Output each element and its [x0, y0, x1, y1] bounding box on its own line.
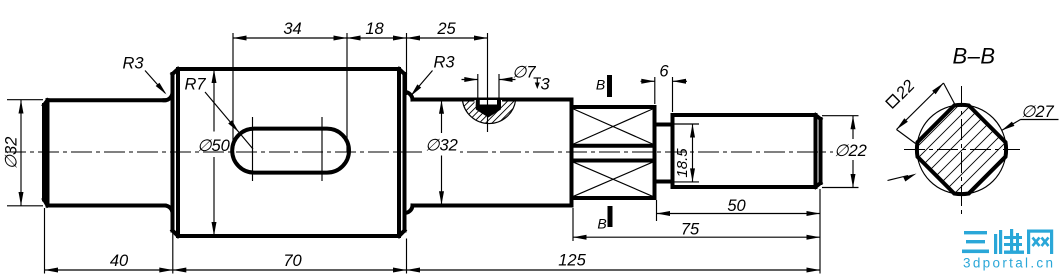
label R3 left with leader: [122, 55, 168, 97]
svg-text:B: B: [597, 216, 606, 232]
keyway arc-centre tick right: [321, 117, 323, 181]
dimension 50: [657, 197, 821, 221]
hole centreline: [487, 33, 489, 132]
svg-text:18.5: 18.5: [674, 148, 691, 178]
fillet R3 bottom-left of shoulder: [165, 206, 173, 214]
dimension Ø7 of hole: [462, 64, 537, 99]
shaft left end face with chamfer: [44, 100, 48, 205]
keyway slot (obround): [232, 129, 349, 173]
svg-text:R3: R3: [433, 54, 455, 72]
fillet R3 bottom-right of shoulder: [405, 206, 413, 214]
fillet R3 top-left of shoulder: [165, 92, 173, 100]
leader arrow on SW flat: [888, 171, 918, 181]
main shaft centerline: [5, 151, 836, 153]
B-B Ø27 thin circle: [917, 105, 1006, 194]
svg-text:∅7: ∅7: [512, 64, 536, 82]
svg-text:∅22: ∅22: [834, 142, 867, 160]
svg-text:40: 40: [110, 252, 129, 270]
svg-text:R3: R3: [122, 55, 144, 73]
svg-text:75: 75: [681, 221, 700, 239]
dimension Ø22: [822, 116, 869, 188]
svg-text:∅32: ∅32: [3, 137, 21, 170]
dimension square 22: [884, 77, 956, 144]
watermark logo 三维网: [962, 229, 1053, 254]
dimension 40 / 70 / 125 chain: [45, 189, 821, 274]
square-flats section (B-B region) outline: [572, 107, 655, 198]
B-B hatching: [862, 50, 1056, 244]
dimension 75: [573, 208, 820, 241]
section plane B marker bottom: [597, 206, 610, 232]
section plane B marker top: [596, 75, 610, 97]
big cylinder section (Ø50 x 70): [173, 69, 405, 236]
dimension 34 / 18 / 25: [233, 20, 488, 152]
svg-text:∅27: ∅27: [1021, 103, 1055, 121]
left journal outline (Ø32 x 40): [48, 100, 165, 205]
end journal outline (Ø22 x 50): [673, 115, 821, 187]
B-B centrelines: [961, 86, 963, 215]
broken-out section arc at hole: [462, 100, 515, 124]
hatching of broken-out section: [428, 40, 546, 158]
label R7 with leader: [184, 76, 253, 150]
dimension Ø32 left: [3, 100, 44, 206]
svg-text:34: 34: [283, 20, 301, 38]
svg-text:3: 3: [541, 76, 551, 94]
label Ø27 with leader: [1000, 103, 1058, 133]
middle journal outline (Ø32): [413, 100, 572, 206]
svg-text:25: 25: [436, 20, 456, 38]
label R3 right with leader: [409, 54, 456, 98]
depth symbol and value 3: [534, 76, 551, 94]
svg-text:∅32: ∅32: [425, 137, 458, 155]
svg-text:70: 70: [283, 252, 302, 270]
dimension Ø50: [197, 69, 231, 236]
B-B square outline with corner arcs: [917, 105, 1006, 194]
dimension 18.5 (neck): [674, 124, 699, 182]
svg-text:B–B: B–B: [952, 44, 995, 69]
relief neck groove (6 wide): [655, 125, 673, 182]
svg-text:6: 6: [659, 63, 669, 81]
fillet R3 top-right of shoulder: [405, 92, 413, 100]
svg-text:B: B: [596, 77, 605, 93]
svg-text:∅50: ∅50: [197, 137, 231, 155]
keyway arc-centre tick left: [252, 117, 254, 181]
svg-text:18: 18: [365, 20, 384, 38]
svg-text:125: 125: [558, 252, 586, 270]
hole Ø7 cross-section: [475, 100, 503, 118]
dimension 6 (neck width): [641, 63, 688, 113]
svg-text:R7: R7: [184, 76, 206, 94]
svg-text:50: 50: [727, 197, 746, 215]
flat-indication diagonals top: [574, 109, 653, 196]
dimension Ø32 middle journal: [423, 100, 460, 205]
